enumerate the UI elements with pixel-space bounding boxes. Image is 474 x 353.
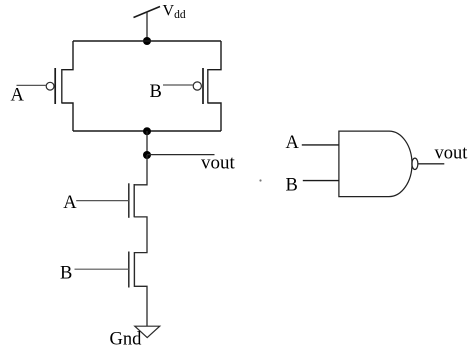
transistor M2 PMOS gate bar — [202, 68, 204, 104]
gate U1 output bubble — [412, 158, 418, 169]
node Vdd rail junction — [143, 37, 151, 45]
wire M2 drain to bottom rail — [208, 103, 221, 131]
wire vout branch — [147, 154, 215, 156]
transistor M1 gate bubble — [46, 82, 54, 90]
ground symbol — [135, 326, 160, 337]
wire input B to U1 — [303, 180, 339, 182]
svg-text:A: A — [63, 193, 77, 213]
stray dot artifact — [259, 179, 261, 181]
gate U1 NAND body — [339, 131, 412, 197]
svg-text:vout: vout — [201, 153, 236, 174]
wire M4 source to ground — [134, 286, 147, 326]
wire input A to M1 — [17, 84, 47, 86]
transistor M4 NMOS gate bar — [128, 252, 130, 288]
wire vout node to M3 drain — [134, 155, 147, 185]
node vout junction — [143, 151, 151, 159]
wire bottom rail of PMOS pair — [73, 130, 221, 132]
wire U1 output — [418, 163, 444, 165]
transistor M1 PMOS channel — [61, 69, 63, 104]
wire top rail — [73, 40, 221, 42]
wire input A to M3 gate — [76, 200, 129, 202]
power Vdd slash — [134, 7, 161, 18]
svg-text:A: A — [11, 85, 25, 105]
transistor M1 PMOS gate bar — [54, 68, 56, 104]
node bottom rail junction — [143, 127, 151, 135]
transistor M2 gate bubble — [193, 82, 201, 90]
wire input A to U1 — [302, 144, 339, 146]
wire right rail drop to M2 source — [208, 41, 221, 70]
wire M3 source to M4 drain — [134, 217, 147, 253]
svg-text:B: B — [286, 176, 298, 196]
svg-text:vout: vout — [435, 144, 469, 164]
wire rail to vout node — [146, 131, 148, 155]
svg-text:A: A — [286, 133, 300, 153]
svg-text:B: B — [60, 264, 72, 284]
svg-text:B: B — [150, 82, 162, 102]
wire input B to M2 — [163, 84, 193, 86]
transistor M3 NMOS channel — [133, 184, 135, 217]
svg-text:Gnd: Gnd — [110, 330, 143, 350]
wire M1 drain to bottom rail — [62, 103, 73, 131]
wire input B to M4 gate — [75, 268, 129, 270]
transistor M4 NMOS channel — [133, 252, 135, 287]
svg-text:Vdd: Vdd — [163, 3, 186, 21]
wire Vdd stem — [146, 12, 148, 42]
wire left rail drop to M1 source — [62, 41, 73, 70]
transistor M3 NMOS gate bar — [128, 183, 130, 218]
transistor M2 PMOS channel — [207, 69, 209, 104]
